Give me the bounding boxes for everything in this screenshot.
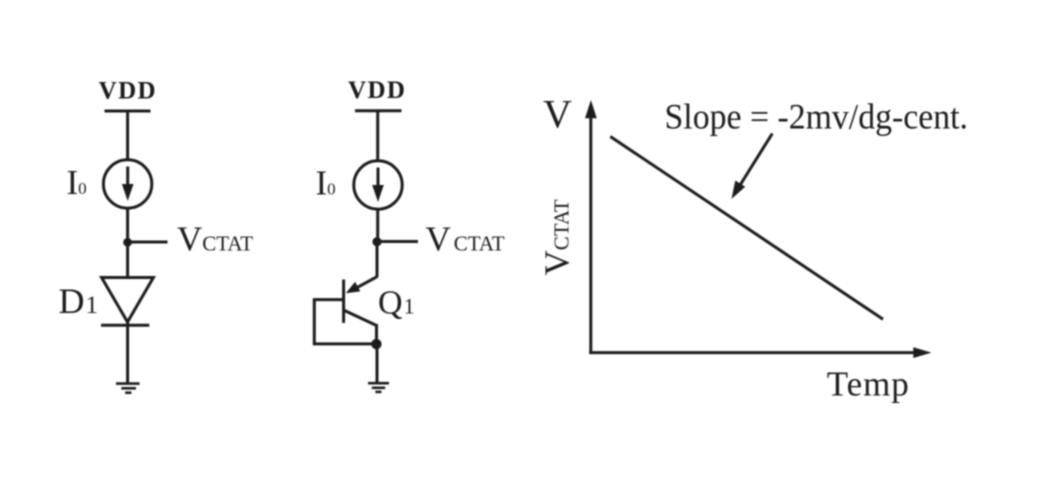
wire current source to node VCTAT (left) <box>126 209 129 243</box>
node junction dot VCTAT (left) <box>123 238 132 247</box>
node junction dot VCTAT (middle) <box>372 237 381 246</box>
transistor Q1 (diode-connected PNP) <box>344 277 377 344</box>
svg-text:Temp: Temp <box>827 365 910 404</box>
wire current source to node VCTAT (middle) <box>376 210 379 243</box>
wire node to transistor Q1 emitter <box>376 242 379 278</box>
wire VDD rail to current source I0 (middle) <box>376 111 379 161</box>
wire stub to VCTAT label (left) <box>128 241 168 244</box>
wire VDD rail to current source I0 (left) <box>126 111 129 160</box>
annotation arrow to sloped line <box>732 134 773 200</box>
svg-text:I0: I0 <box>67 163 87 202</box>
wire stub to VCTAT label (middle) <box>378 240 419 243</box>
svg-text:Slope = -2mv/dg-cent.: Slope = -2mv/dg-cent. <box>665 97 969 137</box>
wire diode cathode to ground (left) <box>126 322 129 384</box>
svg-text:V: V <box>543 92 572 137</box>
node junction dot base-collector tie <box>371 339 381 349</box>
svg-text:I0: I0 <box>316 164 336 203</box>
svg-text:VDD: VDD <box>348 77 406 104</box>
current source I0 (left circuit) <box>103 160 151 208</box>
graph Y axis with arrowhead <box>585 100 597 354</box>
wire node to diode D1 anode <box>126 242 129 278</box>
wire base tie loop (Q1 base to emitter node) <box>314 300 374 344</box>
VDD rail bar (left circuit) <box>105 110 151 113</box>
diode D1 <box>101 278 153 326</box>
svg-text:VCTAT: VCTAT <box>426 220 505 259</box>
ground symbol (middle circuit) <box>368 383 389 392</box>
svg-text:VCTAT: VCTAT <box>538 199 577 275</box>
VCTAT vs Temp sloped line <box>610 137 883 320</box>
svg-text:VDD: VDD <box>99 78 157 105</box>
graph X axis with arrowhead <box>589 347 931 358</box>
svg-text:D1: D1 <box>59 281 99 321</box>
VDD rail bar (middle circuit) <box>355 109 402 112</box>
svg-text:VCTAT: VCTAT <box>177 220 253 259</box>
ground symbol (left circuit) <box>116 384 140 393</box>
wire node to ground (middle) <box>376 344 379 383</box>
current source I0 (middle circuit) <box>354 161 402 209</box>
svg-text:Q1: Q1 <box>378 285 415 322</box>
